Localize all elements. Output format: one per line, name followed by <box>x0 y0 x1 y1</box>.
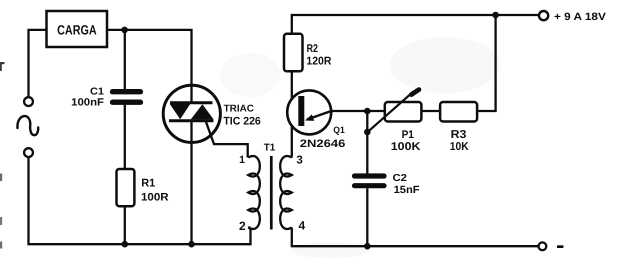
svg-text:120R: 120R <box>306 55 331 67</box>
wire C1 branch down from node A <box>124 30 126 89</box>
svg-text:100K: 100K <box>391 141 422 153</box>
svg-text:4: 4 <box>298 219 305 233</box>
wire C2 to bottom rail <box>366 188 368 246</box>
transistor Q1 base bar <box>298 96 304 126</box>
svg-text:P1: P1 <box>402 129 414 141</box>
wire Q1 emitter to P1 <box>331 110 384 112</box>
transformer T1 core <box>270 156 273 230</box>
transistor Q1 circle <box>287 90 331 134</box>
junction dot bottom rail at R1 <box>122 241 129 248</box>
svg-text:R1: R1 <box>141 178 155 190</box>
wire AC terminal 2 to bottom-left rail <box>29 157 251 244</box>
junction dot emitter node <box>364 108 371 115</box>
potentiometer P1 body <box>385 102 422 122</box>
label minus sign <box>557 245 563 248</box>
svg-text:C2: C2 <box>393 173 408 184</box>
transistor Q1 emitter arrowhead <box>305 114 314 121</box>
resistor R1 <box>117 169 135 206</box>
wire P1 to R3 <box>421 110 440 112</box>
junction dot bottom rail at C2 <box>364 243 371 250</box>
resistor R3 <box>440 102 477 122</box>
junction dot wiper node <box>364 129 371 136</box>
wire emitter node down to C2 <box>366 111 368 174</box>
svg-text:TRIAC: TRIAC <box>224 104 254 115</box>
AC source sine symbol <box>17 116 38 135</box>
transformer T1 secondary winding <box>280 156 292 229</box>
load box CARGA <box>47 11 108 47</box>
capacitor C2 <box>355 176 385 186</box>
triac left triangle <box>170 104 190 119</box>
capacitor C1 <box>113 92 141 103</box>
svg-text:15nF: 15nF <box>394 184 421 196</box>
transistor Q1 emitter line <box>307 111 331 120</box>
svg-text:1: 1 <box>239 154 245 166</box>
triac TIC226 circle <box>163 85 220 142</box>
svg-text:T1: T1 <box>264 142 276 153</box>
svg-text:+ 9 A 18V: + 9 A 18V <box>554 11 606 23</box>
svg-text:2N2646: 2N2646 <box>300 138 346 150</box>
wire R3 to +V rail <box>477 15 496 111</box>
svg-text:R2: R2 <box>307 43 318 55</box>
wire C1 to R1 <box>124 105 126 169</box>
junction dot bottom rail at triac MT1 <box>188 241 195 248</box>
svg-text:CARGA: CARGA <box>57 23 97 38</box>
triac top bar <box>170 101 213 104</box>
plus supply terminal <box>539 11 548 20</box>
wire T1 pin 2 to bottom rail <box>248 226 250 228</box>
svg-text:R3: R3 <box>451 129 467 141</box>
svg-text:3: 3 <box>296 154 302 166</box>
triac right triangle <box>191 104 214 119</box>
wire top-left from AC terminal to CARGA <box>29 30 47 97</box>
svg-text:100R: 100R <box>141 191 169 203</box>
AC terminal 1 <box>24 97 33 106</box>
wire Q1 base B1 to T1 pin 3 <box>291 126 293 158</box>
resistor R2 <box>284 34 303 72</box>
svg-text:100nF: 100nF <box>71 97 104 109</box>
transformer T1 primary winding <box>248 156 260 229</box>
wire CARGA to triac branch top <box>107 30 192 102</box>
junction dot top rail at R3 branch <box>492 12 499 19</box>
svg-text:10K: 10K <box>450 141 469 153</box>
svg-text:Q1: Q1 <box>333 125 345 135</box>
potentiometer P1 wiper tick <box>411 90 419 95</box>
svg-text:C1: C1 <box>90 86 104 97</box>
minus supply terminal <box>539 242 547 250</box>
triac bottom bar <box>169 119 214 122</box>
wire top-right rail (+V) <box>292 15 539 34</box>
wire R2 to Q1 base B2 <box>291 71 293 99</box>
potentiometer P1 wiper arrow <box>368 92 414 133</box>
wire T1 pin 4 to bottom-right rail and minus terminal <box>292 228 539 247</box>
svg-text:2: 2 <box>239 219 246 233</box>
AC terminal 2 <box>24 148 33 157</box>
wire R1 to bottom rail <box>124 206 126 244</box>
node A junction dot (CARGA / C1 / triac) <box>121 27 128 34</box>
wire triac MT1 to bottom rail <box>190 122 192 244</box>
wire triac gate to T1 pin 1 <box>206 121 248 158</box>
svg-text:TIC 226: TIC 226 <box>223 116 260 128</box>
